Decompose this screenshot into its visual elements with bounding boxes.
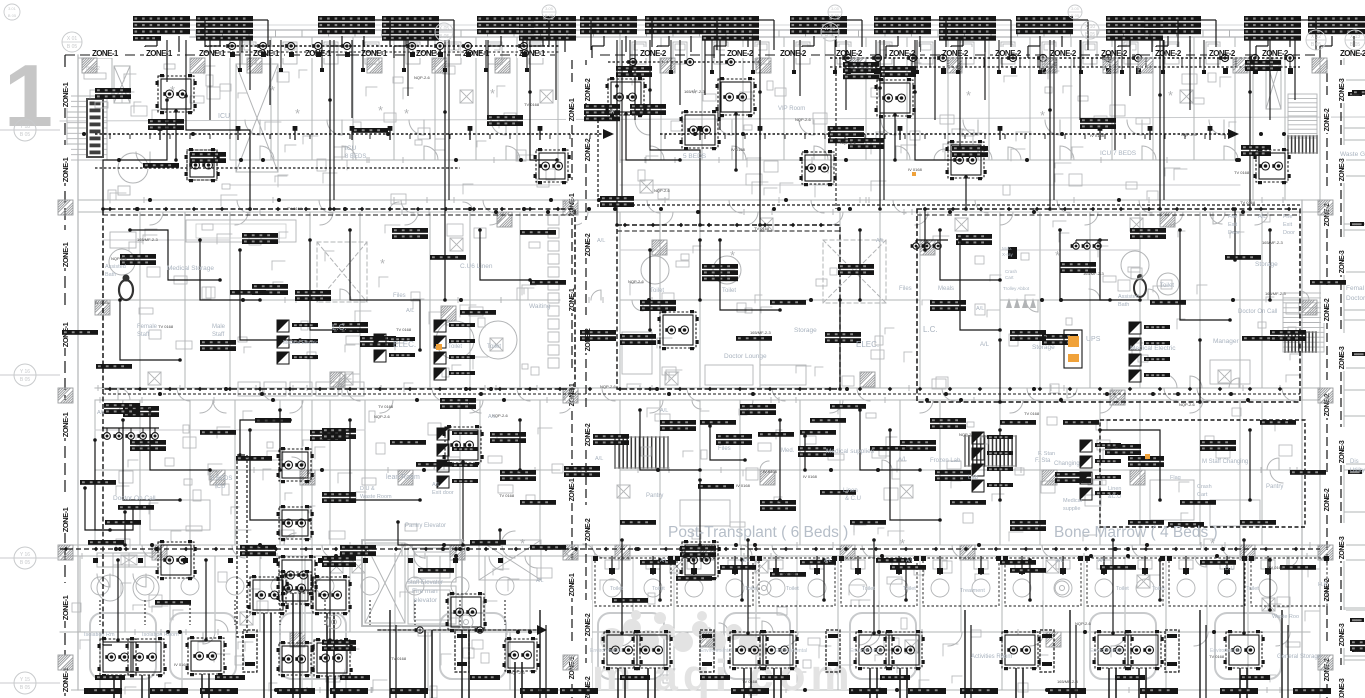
svg-text:ZONE-2: ZONE-2: [585, 518, 592, 541]
svg-text:ZONE-2: ZONE-2: [1209, 49, 1236, 58]
svg-text:ZONE-3: ZONE-3: [1339, 536, 1346, 559]
svg-text:ZONE-1: ZONE-1: [61, 667, 70, 692]
svg-text:ZONE-1: ZONE-1: [569, 573, 576, 596]
svg-text:ZONE-2: ZONE-2: [585, 613, 592, 636]
svg-text:ZONE-1: ZONE-1: [61, 507, 70, 532]
svg-text:ZONE-2: ZONE-2: [585, 676, 592, 698]
svg-text:ZONE-1: ZONE-1: [61, 242, 70, 267]
svg-text:ZONE-2: ZONE-2: [1340, 49, 1365, 58]
svg-text:ZONE-2: ZONE-2: [585, 233, 592, 256]
svg-text:ZONE-2: ZONE-2: [1324, 298, 1331, 321]
svg-text:ZONE-1: ZONE-1: [569, 98, 576, 121]
svg-text:ZONE-2: ZONE-2: [640, 49, 667, 58]
svg-text:ZONE-3: ZONE-3: [1339, 346, 1346, 369]
svg-text:m aqi com: m aqi com: [592, 651, 855, 698]
svg-text:ZONE-1: ZONE-1: [199, 49, 226, 58]
svg-text:ZONE-1: ZONE-1: [61, 157, 70, 182]
svg-text:ZONE-1: ZONE-1: [361, 49, 388, 58]
svg-text:ZONE-3: ZONE-3: [1339, 623, 1346, 646]
svg-text:ZONE-2: ZONE-2: [1324, 488, 1331, 511]
svg-text:ZONE-3: ZONE-3: [1339, 250, 1346, 273]
svg-text:ZONE-2: ZONE-2: [889, 49, 916, 58]
svg-text:ZONE-3: ZONE-3: [1339, 78, 1346, 101]
svg-text:ZONE-2: ZONE-2: [585, 423, 592, 446]
svg-text:ZONE-1: ZONE-1: [146, 49, 173, 58]
svg-text:ZONE-3: ZONE-3: [1339, 678, 1346, 698]
svg-text:ZONE-2: ZONE-2: [1155, 49, 1182, 58]
svg-text:ZONE-3: ZONE-3: [1339, 158, 1346, 181]
svg-text:ZONE-1: ZONE-1: [61, 595, 70, 620]
svg-text:ZONE-2: ZONE-2: [585, 138, 592, 161]
svg-text:ZONE-2: ZONE-2: [1324, 108, 1331, 131]
svg-text:ZONE-1: ZONE-1: [92, 49, 119, 58]
svg-text:ZONE-2: ZONE-2: [585, 78, 592, 101]
svg-text:ZONE-1: ZONE-1: [569, 478, 576, 501]
svg-text:ZONE-1: ZONE-1: [253, 49, 280, 58]
svg-text:ZONE-1: ZONE-1: [61, 322, 70, 347]
svg-text:ZONE-3: ZONE-3: [1339, 440, 1346, 463]
svg-text:ZONE-1: ZONE-1: [61, 82, 70, 107]
svg-text:ZONE-1: ZONE-1: [61, 412, 70, 437]
svg-text:ZONE-2: ZONE-2: [836, 49, 863, 58]
svg-text:ZONE-2: ZONE-2: [780, 49, 807, 58]
svg-text:ZONE-2: ZONE-2: [727, 49, 754, 58]
